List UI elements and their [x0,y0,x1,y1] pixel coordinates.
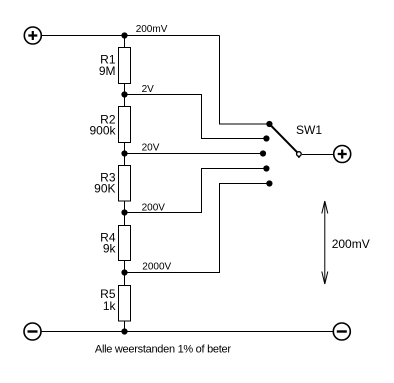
svg-text:9k: 9k [103,242,117,256]
node 2000V tap junction [121,262,171,276]
resistor R5 [100,286,130,322]
svg-text:200mV: 200mV [332,237,370,251]
svg-text:200V: 200V [142,202,166,213]
svg-text:1k: 1k [103,299,117,313]
svg-text:900k: 900k [89,124,116,138]
svg-text:90K: 90K [94,182,115,196]
node 20V tap junction [121,143,159,157]
node 200mV tap junction [121,24,167,39]
wire 200V tap to switch contact 4 [125,169,264,213]
wire 2000V tap to switch contact 5 [125,184,267,273]
svg-text:2V: 2V [142,84,155,95]
node 2V tap junction [121,84,154,97]
wire switch pole to + output [302,154,334,156]
svg-text:2000V: 2000V [142,262,171,273]
svg-text:SW1: SW1 [296,123,322,137]
node bottom rail junction [121,328,127,334]
dimension arrow 200mV range [322,201,370,284]
resistor R3 [94,166,130,202]
wire riser 200mV down to switch contact 1 [220,36,267,125]
wire resistor chain vertical [124,36,126,332]
switch SW1 [260,121,322,187]
terminal - output [333,323,350,340]
svg-text:200mV: 200mV [136,24,168,35]
svg-text:9M: 9M [99,64,116,78]
wire top rail from + input to riser [41,35,219,37]
terminal + output [334,146,351,163]
terminal - input [24,323,41,340]
svg-text:20V: 20V [142,143,160,154]
wire 20V tap to switch contact 3 [125,153,261,155]
resistor R2 [89,107,130,143]
wire 2V tap to switch contact 2 [125,95,264,139]
resistor R4 [100,226,130,261]
svg-text:Alle weerstanden 1% of beter: Alle weerstanden 1% of beter [95,343,231,355]
note text [95,343,231,355]
wire bottom rail [41,331,333,333]
node 200V tap junction [121,202,165,215]
terminal + input [24,27,41,44]
resistor R1 [99,48,131,84]
